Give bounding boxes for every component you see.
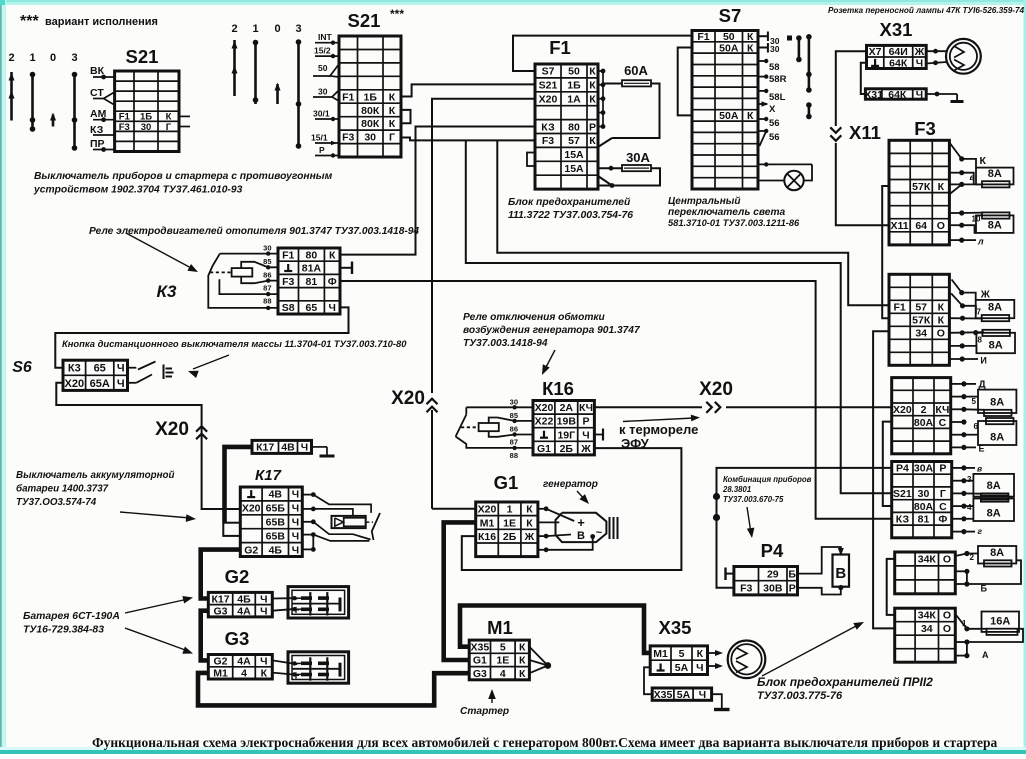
svg-text:Функциональная схема электросн: Функциональная схема электроснабжения дл… xyxy=(92,735,998,750)
svg-text:S21: S21 xyxy=(348,10,381,31)
svg-text:К16: К16 xyxy=(542,378,574,399)
svg-text:30: 30 xyxy=(318,87,328,97)
svg-text:Ч: Ч xyxy=(292,503,299,515)
svg-text:устройством 1902.3704 ТУ37.461: устройством 1902.3704 ТУ37.461.010-93 xyxy=(33,185,243,196)
svg-text:1А: 1А xyxy=(567,94,581,106)
svg-text:Х11: Х11 xyxy=(891,220,909,232)
svg-text:Реле электродвигателей отопите: Реле электродвигателей отопителя 901.374… xyxy=(89,226,419,237)
svg-text:КЗ: КЗ xyxy=(896,514,910,526)
svg-text:5: 5 xyxy=(679,648,685,660)
svg-text:Ж: Ж xyxy=(980,290,991,301)
svg-text:S21: S21 xyxy=(539,80,558,92)
svg-text:Ж: Ж xyxy=(914,46,925,58)
svg-text:Р4: Р4 xyxy=(896,463,909,475)
svg-text:65В: 65В xyxy=(266,517,286,529)
svg-text:87: 87 xyxy=(263,284,271,293)
svg-text:Кнопка дистанционного выключат: Кнопка дистанционного выключателя массы … xyxy=(62,338,407,349)
svg-text:О: О xyxy=(937,220,945,232)
svg-text:Ч: Ч xyxy=(117,363,125,375)
svg-text:2: 2 xyxy=(231,23,237,35)
svg-text:К: К xyxy=(519,642,526,654)
svg-text:G1: G1 xyxy=(494,472,519,493)
svg-text:30В: 30В xyxy=(763,583,783,595)
svg-text:2Б: 2Б xyxy=(560,443,574,455)
svg-text:8А: 8А xyxy=(990,432,1004,444)
svg-text:57: 57 xyxy=(915,302,927,314)
svg-text:8А: 8А xyxy=(988,219,1002,231)
svg-text:30: 30 xyxy=(364,132,376,144)
svg-text:65: 65 xyxy=(94,363,106,375)
svg-text:F1: F1 xyxy=(697,31,709,43)
svg-text:Центральный: Центральный xyxy=(668,196,740,207)
svg-text:А: А xyxy=(982,650,989,660)
svg-text:81: 81 xyxy=(918,514,930,526)
svg-text:30: 30 xyxy=(770,44,780,54)
svg-text:КЧ: КЧ xyxy=(935,404,949,416)
svg-text:Ф: Ф xyxy=(938,514,947,526)
svg-text:О: О xyxy=(943,610,951,622)
svg-text:Выключатель аккумуляторной: Выключатель аккумуляторной xyxy=(16,470,175,481)
svg-text:1Б: 1Б xyxy=(567,80,581,92)
svg-text:6: 6 xyxy=(974,422,979,431)
svg-text:8А: 8А xyxy=(989,340,1003,352)
svg-text:60А: 60А xyxy=(624,63,648,78)
svg-text:34: 34 xyxy=(921,623,933,635)
svg-text:111.3722 ТУ37.003.754-76: 111.3722 ТУ37.003.754-76 xyxy=(508,210,633,221)
svg-text:30А: 30А xyxy=(626,150,650,165)
svg-text:4: 4 xyxy=(500,668,506,680)
svg-text:86: 86 xyxy=(263,271,271,280)
svg-text:50: 50 xyxy=(723,31,735,43)
svg-text:34: 34 xyxy=(915,328,927,340)
svg-text:М1: М1 xyxy=(480,517,495,529)
svg-text:81: 81 xyxy=(306,276,318,288)
svg-text:О: О xyxy=(937,328,945,340)
svg-text:G1: G1 xyxy=(473,655,487,667)
svg-text:4Б: 4Б xyxy=(237,593,251,605)
svg-text:Р: Р xyxy=(939,463,946,475)
svg-text:Ф: Ф xyxy=(328,276,337,288)
svg-text:Стартер: Стартер xyxy=(460,706,509,717)
svg-text:581.3710-01 ТУ37.003.1211-86: 581.3710-01 ТУ37.003.1211-86 xyxy=(668,218,800,228)
svg-text:Р: Р xyxy=(582,416,589,428)
svg-text:В: В xyxy=(577,530,585,542)
svg-text:8А: 8А xyxy=(990,397,1004,409)
svg-text:Комбинация приборов: Комбинация приборов xyxy=(723,475,812,484)
svg-text:К17: К17 xyxy=(211,593,229,605)
svg-text:S7: S7 xyxy=(542,66,555,78)
svg-text:Х31: Х31 xyxy=(880,19,913,40)
svg-text:29: 29 xyxy=(767,568,779,580)
svg-text:2: 2 xyxy=(921,404,927,416)
svg-text:***: *** xyxy=(20,13,39,30)
svg-text:S8: S8 xyxy=(282,302,295,314)
svg-text:3: 3 xyxy=(295,23,301,35)
svg-text:64К: 64К xyxy=(889,58,908,70)
svg-text:86: 86 xyxy=(510,425,518,434)
svg-text:F3: F3 xyxy=(914,118,936,139)
svg-text:Ж: Ж xyxy=(524,531,535,543)
svg-text:ТУ37.003.670-75: ТУ37.003.670-75 xyxy=(723,495,784,504)
svg-text:К: К xyxy=(389,105,396,117)
svg-text:1Е: 1Е xyxy=(496,655,509,667)
svg-text:Х7: Х7 xyxy=(869,46,882,58)
svg-text:8: 8 xyxy=(978,336,983,345)
svg-text:Батарея 6СТ-190А: Батарея 6СТ-190А xyxy=(23,611,120,622)
svg-text:4А: 4А xyxy=(237,606,251,618)
svg-text:Г: Г xyxy=(389,132,395,144)
svg-text:5: 5 xyxy=(500,642,506,654)
svg-text:Розетка переносной лампы 47К Т: Розетка переносной лампы 47К ТУI6-526.35… xyxy=(828,6,1025,15)
svg-text:ТУ37.ОО3.574-74: ТУ37.ОО3.574-74 xyxy=(16,497,97,508)
svg-text:К: К xyxy=(519,655,526,667)
svg-text:16А: 16А xyxy=(990,615,1010,627)
svg-text:S21: S21 xyxy=(126,46,159,67)
svg-text:7: 7 xyxy=(977,308,982,317)
svg-text:Выключатель приборов и стартер: Выключатель приборов и стартера с против… xyxy=(34,170,333,182)
svg-text:К17: К17 xyxy=(255,467,282,484)
svg-text:Ч: Ч xyxy=(260,606,267,618)
svg-text:1: 1 xyxy=(29,52,35,64)
svg-text:87: 87 xyxy=(510,438,518,447)
svg-text:8А: 8А xyxy=(990,547,1004,559)
svg-text:F3: F3 xyxy=(282,276,294,288)
svg-text:Ч: Ч xyxy=(696,662,703,674)
svg-text:80К: 80К xyxy=(361,105,380,117)
svg-text:8А: 8А xyxy=(988,302,1002,314)
svg-text:К: К xyxy=(747,42,754,54)
svg-text:К: К xyxy=(526,504,533,516)
svg-text:F3: F3 xyxy=(119,122,130,133)
svg-text:л: л xyxy=(977,237,984,247)
svg-text:2А: 2А xyxy=(560,402,574,414)
svg-text:30/1: 30/1 xyxy=(313,109,330,119)
svg-text:К: К xyxy=(589,66,596,78)
svg-text:Ч: Ч xyxy=(329,302,336,314)
svg-text:85: 85 xyxy=(263,257,271,266)
svg-text:28.3801: 28.3801 xyxy=(722,485,751,494)
svg-text:генератор: генератор xyxy=(543,479,598,490)
svg-text:F1: F1 xyxy=(549,37,571,58)
svg-text:СТ: СТ xyxy=(90,87,104,99)
svg-text:К17: К17 xyxy=(256,442,274,454)
svg-text:S6: S6 xyxy=(12,359,32,376)
svg-text:88: 88 xyxy=(510,451,518,460)
svg-text:56: 56 xyxy=(769,132,780,143)
svg-text:ТУ16-729.384-83: ТУ16-729.384-83 xyxy=(23,625,104,636)
svg-text:S21: S21 xyxy=(893,488,912,500)
svg-text:М1: М1 xyxy=(487,617,513,638)
svg-text:И: И xyxy=(980,356,986,366)
svg-text:15/2: 15/2 xyxy=(314,46,331,56)
svg-text:Е: Е xyxy=(979,444,985,454)
svg-text:Х35: Х35 xyxy=(471,642,490,654)
svg-text:0: 0 xyxy=(50,52,56,64)
svg-text:85: 85 xyxy=(510,411,518,420)
svg-text:К: К xyxy=(389,91,396,103)
svg-text:возбуждения генератора 901.374: возбуждения генератора 901.3747 xyxy=(463,324,641,336)
svg-text:Х20: Х20 xyxy=(478,504,497,516)
svg-text:5А: 5А xyxy=(675,662,689,674)
svg-text:К: К xyxy=(261,668,268,680)
svg-text:в: в xyxy=(970,172,975,182)
svg-text:Х31: Х31 xyxy=(864,89,883,101)
svg-text:F1: F1 xyxy=(893,302,905,314)
svg-text:М1: М1 xyxy=(653,648,668,660)
svg-text:19Г: 19Г xyxy=(557,429,575,441)
svg-text:Р: Р xyxy=(789,583,796,595)
svg-text:4Б: 4Б xyxy=(269,544,283,556)
svg-text:F3: F3 xyxy=(342,132,354,144)
svg-text:58R: 58R xyxy=(769,74,787,85)
svg-text:Блок предохранителей: Блок предохранителей xyxy=(508,197,631,208)
svg-text:К: К xyxy=(938,315,945,327)
svg-text:80А: 80А xyxy=(914,417,934,429)
svg-text:F1: F1 xyxy=(282,249,294,261)
svg-text:G2: G2 xyxy=(213,655,227,667)
svg-text:65: 65 xyxy=(306,302,318,314)
svg-text:65А: 65А xyxy=(90,378,110,390)
svg-text:К: К xyxy=(519,668,526,680)
svg-text:К: К xyxy=(589,135,596,147)
svg-text:О: О xyxy=(943,554,951,566)
svg-text:50А: 50А xyxy=(719,110,739,122)
svg-text:30: 30 xyxy=(263,244,271,253)
svg-text:К: К xyxy=(938,181,945,193)
svg-text:Ж: Ж xyxy=(580,443,591,455)
svg-text:4: 4 xyxy=(967,503,972,512)
svg-text:64И: 64И xyxy=(889,46,908,58)
svg-text:Ч: Ч xyxy=(292,489,299,501)
svg-text:80А: 80А xyxy=(914,501,934,513)
svg-text:Х: Х xyxy=(769,104,776,115)
svg-text:8А: 8А xyxy=(988,168,1002,180)
svg-text:О: О xyxy=(943,623,951,635)
svg-text:3: 3 xyxy=(71,52,77,64)
svg-text:Б: Б xyxy=(981,584,988,594)
svg-text:30: 30 xyxy=(510,398,518,407)
svg-text:G2: G2 xyxy=(225,566,250,587)
svg-text:19В: 19В xyxy=(557,416,577,428)
svg-text:Х20: Х20 xyxy=(65,378,85,390)
svg-text:65Б: 65Б xyxy=(266,503,286,515)
svg-text:Ч: Ч xyxy=(582,429,589,441)
svg-text:К: К xyxy=(697,648,704,660)
svg-text:58: 58 xyxy=(769,62,780,73)
svg-text:К3: К3 xyxy=(68,363,81,375)
svg-text:К: К xyxy=(329,249,336,261)
svg-text:F3: F3 xyxy=(740,583,752,595)
svg-text:8А: 8А xyxy=(987,508,1001,520)
svg-text:1: 1 xyxy=(962,619,967,628)
svg-text:вариант исполнения: вариант исполнения xyxy=(45,16,158,28)
svg-text:G1: G1 xyxy=(537,443,551,455)
svg-text:5А: 5А xyxy=(677,689,691,701)
svg-text:64: 64 xyxy=(915,220,927,232)
svg-text:Г: Г xyxy=(940,488,946,500)
svg-text:Р: Р xyxy=(589,121,596,133)
svg-text:80: 80 xyxy=(568,121,580,133)
svg-text:F1: F1 xyxy=(342,91,354,103)
svg-text:К: К xyxy=(589,94,596,106)
svg-text:К: К xyxy=(747,110,754,122)
svg-text:К: К xyxy=(389,118,396,130)
svg-text:56: 56 xyxy=(769,118,780,129)
svg-text:30: 30 xyxy=(918,488,930,500)
svg-text:G3: G3 xyxy=(225,628,250,649)
svg-text:Х20: Х20 xyxy=(155,419,189,440)
svg-text:К16: К16 xyxy=(478,531,496,543)
svg-text:Х20: Х20 xyxy=(391,388,425,409)
svg-text:80: 80 xyxy=(306,249,318,261)
svg-text:Г: Г xyxy=(166,122,172,133)
svg-text:34К: 34К xyxy=(918,554,937,566)
svg-text:Х20: Х20 xyxy=(535,402,554,414)
svg-text:50А: 50А xyxy=(719,42,739,54)
svg-text:Блок предохранителей ПРII2: Блок предохранителей ПРII2 xyxy=(757,675,933,689)
svg-text:4В: 4В xyxy=(269,489,283,501)
svg-text:4А: 4А xyxy=(237,655,251,667)
svg-text:15/1: 15/1 xyxy=(311,133,328,143)
svg-text:3: 3 xyxy=(967,475,972,484)
svg-text:4: 4 xyxy=(241,668,247,680)
svg-text:50: 50 xyxy=(318,63,328,73)
svg-text:G3: G3 xyxy=(473,668,487,680)
svg-text:Р: Р xyxy=(319,145,325,155)
svg-text:81А: 81А xyxy=(302,263,322,275)
svg-text:80К: 80К xyxy=(361,118,380,130)
svg-text:ТУ37.003.1418-94: ТУ37.003.1418-94 xyxy=(463,338,548,349)
svg-text:34К: 34К xyxy=(918,610,937,622)
svg-text:G2: G2 xyxy=(244,544,258,556)
svg-text:8А: 8А xyxy=(987,480,1001,492)
svg-text:4В: 4В xyxy=(281,442,295,454)
svg-text:F3: F3 xyxy=(542,135,554,147)
svg-text:1: 1 xyxy=(252,23,258,35)
svg-text:~: ~ xyxy=(596,527,603,539)
svg-text:К: К xyxy=(938,302,945,314)
svg-text:Х20: Х20 xyxy=(242,503,261,515)
svg-text:КЗ: КЗ xyxy=(541,121,555,133)
svg-text:G3: G3 xyxy=(213,606,227,618)
svg-text:5: 5 xyxy=(972,397,977,406)
svg-text:С: С xyxy=(939,501,947,513)
svg-text:0: 0 xyxy=(274,23,280,35)
svg-text:Х20: Х20 xyxy=(699,379,733,400)
svg-text:58L: 58L xyxy=(769,92,786,103)
svg-text:К: К xyxy=(980,155,987,167)
svg-text:Б: Б xyxy=(788,568,796,580)
svg-text:57К: 57К xyxy=(912,181,931,193)
svg-text:57К: 57К xyxy=(912,315,931,327)
svg-text:1Б: 1Б xyxy=(364,91,378,103)
svg-text:Х22: Х22 xyxy=(535,416,554,428)
svg-text:***: *** xyxy=(390,7,404,21)
svg-text:Ч: Ч xyxy=(292,517,299,529)
svg-text:Р4: Р4 xyxy=(761,540,784,561)
svg-text:Ч: Ч xyxy=(301,442,308,454)
svg-text:Ч: Ч xyxy=(260,655,267,667)
svg-text:Ч: Ч xyxy=(292,544,299,556)
svg-text:50: 50 xyxy=(568,66,580,78)
svg-text:Ч: Ч xyxy=(916,89,923,101)
svg-text:батареи 1400.3737: батареи 1400.3737 xyxy=(16,484,109,495)
svg-text:1: 1 xyxy=(507,504,513,516)
svg-text:Х20: Х20 xyxy=(893,404,912,416)
svg-text:Ч: Ч xyxy=(292,530,299,542)
svg-text:К: К xyxy=(526,517,533,529)
svg-text:15А: 15А xyxy=(564,149,584,161)
svg-text:ТУ37.003.775-76: ТУ37.003.775-76 xyxy=(757,690,843,702)
svg-text:S7: S7 xyxy=(719,5,742,26)
svg-text:Ч: Ч xyxy=(260,593,267,605)
svg-text:переключатель света: переключатель света xyxy=(668,207,786,218)
svg-text:65В: 65В xyxy=(266,530,286,542)
svg-text:Х11: Х11 xyxy=(849,122,881,143)
svg-text:В: В xyxy=(835,565,846,582)
svg-text:30: 30 xyxy=(141,122,152,133)
svg-text:С: С xyxy=(939,417,947,429)
svg-text:Х35: Х35 xyxy=(654,689,673,701)
svg-text:INT: INT xyxy=(318,32,333,42)
svg-text:+: + xyxy=(577,515,585,530)
svg-text:К3: К3 xyxy=(157,282,177,301)
svg-text:2Б: 2Б xyxy=(503,531,517,543)
svg-text:в: в xyxy=(977,464,982,474)
svg-text:Ч: Ч xyxy=(916,58,923,70)
svg-text:К: К xyxy=(589,80,596,92)
svg-text:2: 2 xyxy=(8,52,14,64)
svg-text:15А: 15А xyxy=(564,163,584,175)
svg-text:М1: М1 xyxy=(213,668,228,680)
svg-text:КЧ: КЧ xyxy=(579,402,593,414)
svg-text:г: г xyxy=(978,526,983,536)
svg-text:Х20: Х20 xyxy=(539,94,558,106)
svg-text:Реле отключения обмотки: Реле отключения обмотки xyxy=(463,311,606,323)
svg-text:Х35: Х35 xyxy=(659,617,692,638)
svg-text:1Е: 1Е xyxy=(503,517,516,529)
svg-text:64К: 64К xyxy=(888,89,907,101)
svg-text:88: 88 xyxy=(263,297,271,306)
svg-text:30А: 30А xyxy=(914,463,934,475)
svg-text:57: 57 xyxy=(568,135,580,147)
svg-text:К: К xyxy=(747,31,754,43)
svg-text:к термореле: к термореле xyxy=(619,422,698,437)
svg-text:Ч: Ч xyxy=(699,689,706,701)
svg-text:Ч: Ч xyxy=(117,378,125,390)
